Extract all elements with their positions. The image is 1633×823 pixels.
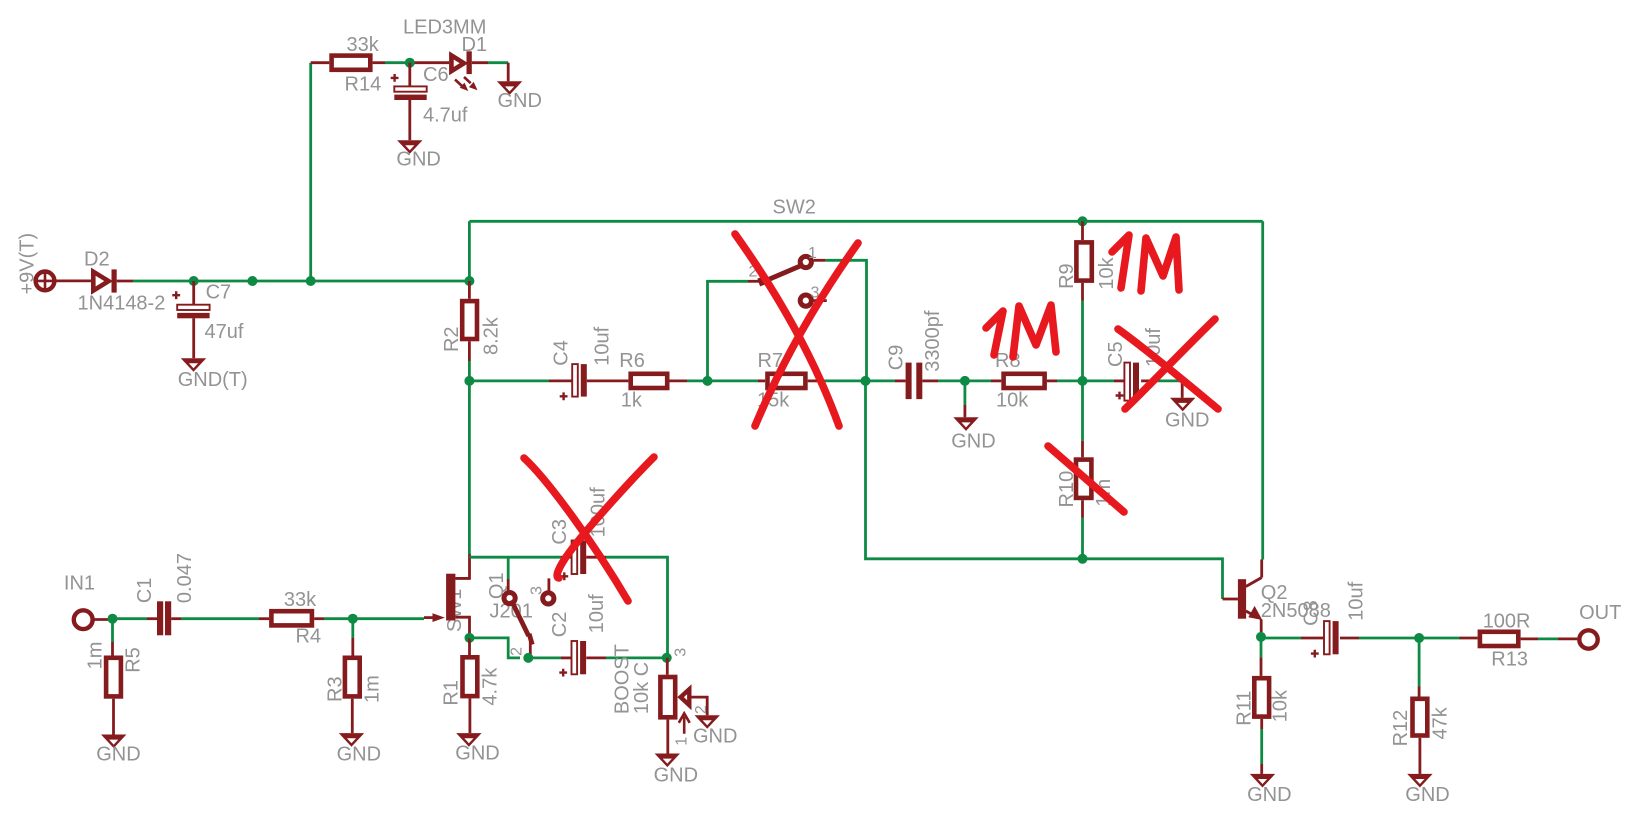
- svg-text:3: 3: [529, 586, 546, 595]
- ground GND below C6: [396, 140, 440, 170]
- resistor R2 8.2k: [441, 301, 503, 355]
- svg-text:GND: GND: [1165, 410, 1209, 432]
- wire SW2 pin1 pin: [814, 259, 826, 262]
- svg-text:C3: C3: [549, 519, 571, 545]
- ground GND below R11: [1247, 774, 1291, 806]
- wire R14 left pin: [311, 61, 330, 64]
- wire pot top pin: [666, 658, 669, 675]
- wire C9 to R8: [938, 379, 991, 382]
- wire R8 to C5: [1057, 379, 1114, 382]
- wire C8 right pin: [1340, 637, 1359, 640]
- capacitor C6 4.7uf: [391, 64, 468, 127]
- resistor R1 4.7k: [441, 657, 502, 705]
- svg-text:3300pf: 3300pf: [922, 310, 944, 372]
- svg-text:C6: C6: [423, 64, 449, 86]
- wire C9 left pin: [895, 379, 906, 382]
- wire R6 right pin: [670, 379, 688, 382]
- svg-text:R13: R13: [1491, 649, 1528, 671]
- svg-text:R2: R2: [441, 326, 463, 352]
- resistor R12 47k: [1390, 699, 1452, 747]
- svg-text:33k: 33k: [347, 34, 380, 56]
- wire R1 top pin: [468, 638, 471, 655]
- wire SW2 branch up: [708, 281, 749, 381]
- wire C1 left pin: [147, 617, 157, 620]
- wire node to C4: [469, 379, 549, 382]
- wire gate net: [353, 617, 424, 620]
- svg-text:C7: C7: [206, 282, 232, 304]
- wire C2 left pin: [561, 657, 572, 660]
- diode D2 1N4148-2: [78, 249, 166, 315]
- wire R2 top pin: [468, 281, 471, 299]
- svg-text:10k: 10k: [996, 390, 1029, 412]
- wire Q1 drain pin: [455, 554, 469, 578]
- svg-text:1N4148-2: 1N4148-2: [78, 293, 166, 315]
- junction rail/C7: [189, 276, 199, 286]
- power +9V(T) supply pin: [17, 233, 55, 295]
- wire R3 branch: [351, 619, 354, 638]
- svg-text:4.7k: 4.7k: [479, 667, 501, 706]
- svg-text:R3: R3: [325, 676, 347, 702]
- wire R3 top pin: [351, 638, 354, 656]
- resistor R11 10k: [1234, 678, 1292, 726]
- resistor R3 1m: [325, 658, 384, 703]
- wire R11 top pin: [1260, 657, 1263, 676]
- capacitor C7 47uf: [172, 282, 244, 344]
- junction rail joint: [247, 276, 257, 286]
- wire gnd pin of C9 node: [964, 405, 967, 417]
- svg-text:47k: 47k: [1430, 706, 1452, 739]
- wire C2 right pin: [586, 657, 606, 660]
- svg-text:R14: R14: [345, 74, 382, 96]
- ground GND at pot wiper: [693, 715, 737, 747]
- capacitor C5 10uf: [1105, 328, 1165, 401]
- annotation X over C3 stroke 2: [557, 457, 654, 578]
- wire R7 right pin: [808, 379, 818, 382]
- wire SW1 pin1 drop: [507, 557, 510, 579]
- wire C5 to gnd corner: [1152, 379, 1182, 382]
- wire R8 right pin: [1047, 379, 1057, 382]
- wire SW2 pin3 stub: [814, 299, 827, 302]
- wire C3 left pin: [561, 556, 572, 559]
- svg-text:C2: C2: [549, 612, 571, 638]
- svg-text:C5: C5: [1105, 341, 1127, 367]
- wire R8 left pin: [991, 379, 1001, 382]
- wire R5 top pin: [111, 642, 114, 656]
- svg-text:R4: R4: [296, 626, 322, 648]
- wire R6 to R7: [687, 379, 758, 382]
- potentiometer BOOST 10k C: [611, 644, 710, 746]
- wire C8 left pin: [1301, 637, 1324, 640]
- svg-text:SW2: SW2: [773, 197, 816, 219]
- wire D1 to ground corner: [488, 61, 508, 64]
- wire SW2 pole pin: [748, 280, 760, 283]
- wire R5 branch: [111, 619, 114, 642]
- svg-text:0.047: 0.047: [174, 553, 196, 603]
- wire C6 top pin: [408, 63, 411, 87]
- junction pot pin3: [662, 653, 672, 663]
- svg-text:R9: R9: [1056, 263, 1078, 289]
- svg-text:GND: GND: [1247, 784, 1291, 806]
- wire V+ rail: [133, 280, 469, 283]
- junction C9/R8/gnd: [960, 376, 970, 386]
- svg-text:10k C: 10k C: [631, 662, 653, 714]
- svg-text:4.7uf: 4.7uf: [423, 105, 468, 127]
- ground GND below D1: [497, 81, 542, 112]
- svg-text:GND: GND: [951, 431, 995, 453]
- svg-text:OUT: OUT: [1579, 602, 1621, 624]
- annotation X over C5 stroke 1: [1118, 329, 1218, 409]
- annotation X over C5 stroke 2: [1125, 319, 1215, 409]
- svg-text:47uf: 47uf: [205, 321, 244, 343]
- svg-text:2: 2: [693, 705, 710, 714]
- wire emitter to R11: [1260, 637, 1263, 658]
- wire R13 to OUT: [1538, 638, 1558, 641]
- svg-text:2: 2: [509, 647, 526, 656]
- wire IN1 to C1: [113, 617, 148, 620]
- switch SW2: [749, 245, 820, 306]
- capacitor C8 10uf: [1301, 581, 1368, 657]
- svg-text:D1: D1: [462, 34, 488, 56]
- resistor R10 1m: [1056, 460, 1115, 508]
- wire R4 left pin: [259, 617, 269, 620]
- ground GND after C5: [1165, 398, 1209, 432]
- junction R2/C4/drain: [464, 376, 474, 386]
- svg-text:GND: GND: [455, 743, 499, 765]
- svg-text:C4: C4: [551, 340, 573, 366]
- wire gnd branch of C9 node: [964, 381, 967, 405]
- resistor R7 15k: [757, 350, 805, 412]
- svg-text:10k: 10k: [1270, 689, 1292, 722]
- wire R12 to gnd: [1419, 738, 1422, 774]
- svg-text:33k: 33k: [284, 589, 317, 611]
- wire collector from rail: [1261, 221, 1264, 559]
- svg-text:GND: GND: [96, 744, 140, 766]
- wire R10 to base net: [1081, 518, 1084, 559]
- svg-text:10k: 10k: [1096, 256, 1118, 289]
- wire R2 bottom pin: [468, 341, 471, 361]
- pin IN1: [64, 573, 95, 630]
- wire C5 left pin: [1114, 379, 1124, 382]
- wire SW1 pin1 pin: [507, 579, 510, 590]
- junction R14/C6/D1: [405, 58, 415, 68]
- svg-text:GND: GND: [654, 765, 698, 787]
- wire IN1 pin: [93, 618, 113, 621]
- svg-text:R1: R1: [441, 680, 463, 706]
- capacitor C4 10uf: [551, 326, 614, 400]
- wire R7 left pin: [758, 379, 765, 382]
- transistor Q2 2N5088: [1238, 560, 1331, 633]
- annotation X over SW2 and R7 stroke 2: [755, 243, 858, 426]
- wire node to R13: [1419, 637, 1459, 640]
- wire R9 top pin: [1081, 221, 1084, 240]
- wire R3 to gnd: [351, 699, 354, 733]
- junction C8/R12/R13: [1414, 633, 1424, 643]
- svg-text:3: 3: [672, 648, 689, 657]
- wire R10 bottom pin: [1081, 500, 1084, 517]
- wire node to D1 anode: [385, 61, 411, 64]
- wire R4 right pin: [314, 617, 324, 620]
- svg-text:R6: R6: [619, 350, 645, 372]
- wire Q2 base pin: [1223, 598, 1238, 601]
- ground GND below R1: [455, 733, 499, 764]
- svg-text:R11: R11: [1234, 690, 1256, 725]
- switch SW1: [504, 578, 554, 658]
- junction base net/R10: [1078, 554, 1088, 564]
- svg-text:10uf: 10uf: [592, 326, 614, 365]
- resistor R4 33k: [271, 589, 321, 648]
- junction SW1 pin2 / C2: [523, 653, 533, 663]
- capacitor C3 100uf: [549, 487, 609, 580]
- svg-text:C1: C1: [134, 578, 156, 604]
- svg-text:GND: GND: [396, 149, 440, 171]
- wire pot bottom pin: [666, 720, 669, 754]
- wire C6 to ground: [408, 100, 411, 140]
- wire base net horizontal: [866, 381, 1223, 599]
- wire C1 to R4: [181, 617, 259, 620]
- wire C1 right pin: [171, 617, 181, 620]
- wire R10 top pin: [1081, 441, 1084, 457]
- junction R6/R7/SW2 branch: [703, 376, 713, 386]
- svg-text:R12: R12: [1390, 710, 1412, 747]
- svg-text:1m: 1m: [362, 675, 384, 703]
- resistor R6 1k: [619, 350, 667, 412]
- wire +9V to D2 anode: [54, 279, 91, 282]
- svg-text:IN1: IN1: [64, 573, 95, 595]
- svg-text:C8: C8: [1301, 600, 1323, 626]
- wire C5 gnd pin: [1181, 381, 1184, 398]
- wire C3 to pot corner: [606, 557, 668, 658]
- svg-text:1m: 1m: [84, 642, 106, 670]
- resistor R13 100R: [1480, 611, 1531, 671]
- svg-text:1k: 1k: [621, 390, 643, 412]
- wire C7 to ground: [192, 318, 195, 358]
- junction rail/R14 branch: [306, 276, 316, 286]
- wire D1 cathode pin: [472, 61, 488, 64]
- junction R7/SW2 return/base branch: [861, 376, 871, 386]
- svg-text:+9V(T): +9V(T): [17, 233, 39, 295]
- capacitor C2 10uf: [549, 594, 608, 677]
- svg-text:GND(T): GND(T): [178, 369, 248, 391]
- wire down to GND of D1: [507, 63, 510, 82]
- wire R4 to gate: [324, 617, 353, 620]
- svg-text:R10: R10: [1056, 471, 1078, 508]
- wire R11 to gnd: [1260, 729, 1263, 764]
- wire SW2 pin1 to R7 out: [826, 260, 867, 381]
- wire C7 top pin: [192, 281, 195, 305]
- junction top rail/R9: [1078, 216, 1088, 226]
- resistor R5 1m: [84, 642, 144, 697]
- wire C9 right pin: [922, 379, 938, 382]
- svg-text:GND: GND: [693, 725, 737, 747]
- svg-text:1: 1: [673, 737, 690, 746]
- annotation X over C3 stroke 1: [524, 458, 628, 601]
- svg-text:10uf: 10uf: [586, 594, 608, 633]
- junction Q1 source: [465, 633, 475, 643]
- wire R9 bottom pin: [1081, 283, 1084, 301]
- LED D1 LED3MM: [403, 17, 487, 92]
- ground GND below R5: [96, 735, 140, 766]
- junction R8/R9/R10: [1078, 376, 1088, 386]
- svg-text:C9: C9: [886, 345, 908, 371]
- wire R9 to middle node: [1081, 301, 1084, 381]
- svg-text:100R: 100R: [1483, 611, 1531, 633]
- ground GND below R3: [337, 733, 381, 765]
- wire D2 cathode to rail: [117, 280, 133, 283]
- svg-text:R5: R5: [123, 647, 145, 673]
- wire C2 to pot node: [606, 657, 667, 660]
- capacitor C1 0.047: [134, 553, 196, 635]
- wire C4 left pin: [549, 379, 572, 382]
- svg-text:D2: D2: [84, 249, 110, 271]
- resistor R8 10k: [995, 350, 1045, 412]
- wire R7 to C9: [818, 379, 895, 382]
- junction Q2 emitter: [1256, 632, 1266, 642]
- wire R12 top pin: [1418, 687, 1421, 697]
- wire C3 right pin: [586, 556, 606, 559]
- wire C4 right pin: [587, 379, 629, 382]
- ground GND(T) below C7: [178, 358, 248, 391]
- junction R4/R3/gate: [348, 614, 358, 624]
- wire OUT pin: [1558, 638, 1577, 641]
- annotation slash over R10: [1048, 446, 1124, 512]
- wire C5 right pin: [1141, 379, 1152, 382]
- svg-text:BOOST: BOOST: [611, 644, 633, 714]
- resistor R9 10k: [1056, 242, 1118, 289]
- svg-text:10uf: 10uf: [1345, 581, 1367, 620]
- wire R11 gnd pin: [1260, 764, 1263, 774]
- resistor R14 33k: [332, 34, 382, 96]
- wire R13 right pin: [1521, 638, 1538, 641]
- svg-text:GND: GND: [1405, 784, 1449, 806]
- annotation 1M near R9: [1112, 235, 1179, 291]
- wire R11 bottom pin: [1260, 719, 1263, 729]
- junction IN1/R5: [108, 614, 118, 624]
- svg-text:GND: GND: [498, 90, 542, 112]
- wire node to C2: [528, 657, 561, 660]
- wire source to C2 corner: [470, 638, 521, 658]
- wire node to R12: [1418, 638, 1421, 687]
- svg-text:8.2k: 8.2k: [481, 316, 503, 355]
- wire C8 to R12 node: [1359, 637, 1419, 640]
- wire drain column: [468, 381, 471, 554]
- wire R13 left pin: [1460, 637, 1478, 640]
- wire drain to C3: [469, 556, 561, 559]
- wire node to R10: [1081, 381, 1084, 441]
- transistor Q1 J201 JFET: [424, 572, 533, 633]
- wire R5 to gnd: [112, 699, 115, 735]
- wire V+ branch up to R14: [309, 63, 312, 281]
- ground GND below C9 node: [951, 417, 995, 452]
- capacitor C9 3300pf: [886, 310, 944, 399]
- pin OUT: [1579, 602, 1621, 649]
- annotation 1M near R8: [986, 305, 1056, 357]
- junction rail/R2: [464, 276, 474, 286]
- wire R1 to gnd: [468, 698, 471, 733]
- svg-text:GND: GND: [337, 744, 381, 766]
- wire emitter to C8: [1261, 637, 1301, 640]
- wire R2 to middle node: [468, 361, 471, 381]
- annotation X over SW2 and R7 stroke 1: [735, 234, 839, 426]
- wire top rail SW2 net: [469, 221, 1262, 281]
- wire R14 to node at C6: [373, 61, 385, 64]
- ground GND below pot: [654, 754, 698, 787]
- wire D1 anode pin: [411, 61, 449, 64]
- ground GND below R12: [1405, 774, 1449, 806]
